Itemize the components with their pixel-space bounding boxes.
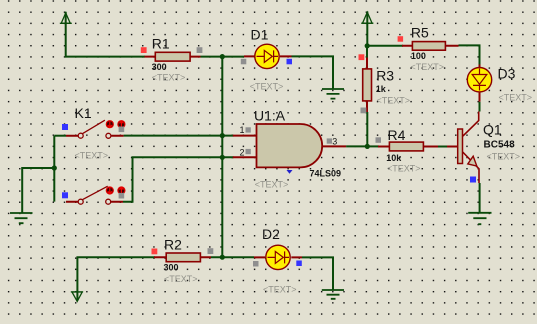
svg-text:U1:A: U1:A: [254, 108, 286, 124]
R2 pin marker: [208, 248, 214, 254]
svg-text:K1: K1: [75, 105, 92, 121]
R5 origin marker: [398, 36, 404, 42]
resistor R4: [378, 142, 438, 151]
U1:A text origin marker: [287, 170, 293, 174]
switch 1 origin marker: [62, 124, 68, 130]
switch 1 toggle buttons: [106, 120, 126, 128]
wire node A to LED D1: [222, 56, 244, 58]
junction pin 2: [220, 155, 225, 160]
wire power arrow to node B: [366, 11, 368, 45]
wire gate output to junction: [346, 145, 367, 147]
wire R4 output node: [367, 145, 379, 147]
wire switch 2 to gate pin 2: [123, 157, 234, 201]
svg-text:D1: D1: [251, 27, 269, 43]
ground near D2: [322, 290, 344, 299]
resistor R3: [363, 58, 372, 113]
svg-text:D2: D2: [262, 226, 280, 242]
transistor Q1: [447, 112, 479, 184]
wire switch 1 to gate pin 1: [124, 135, 234, 137]
right ground: [468, 213, 491, 224]
svg-text:74LS09: 74LS09: [310, 169, 342, 179]
svg-text:<TEXT>: <TEXT>: [377, 95, 411, 105]
wire down arrow to R2: [77, 257, 155, 300]
svg-text:<TEXT>: <TEXT>: [164, 274, 198, 284]
junction R2: [220, 255, 225, 260]
D2 origin marker: [296, 261, 302, 267]
svg-text:BC548: BC548: [484, 140, 516, 151]
switch 2 origin marker: [62, 192, 68, 198]
wire R1 to node A: [201, 56, 223, 58]
R1 pin marker: [197, 47, 203, 53]
svg-text:D3: D3: [498, 66, 516, 82]
node B junction: [365, 43, 370, 48]
wire Q1 emitter to ground: [479, 183, 481, 212]
wire R2 to junction and LED D2: [211, 256, 254, 258]
wire R3 top to node B: [366, 46, 368, 58]
AND gate U1:A: [233, 124, 346, 167]
svg-text:R3: R3: [376, 67, 394, 83]
switch K1 pole 2: [66, 186, 123, 204]
Q1 emitter marker: [470, 177, 476, 183]
down arrow bottom-left: [71, 292, 83, 302]
svg-text:<TEXT>: <TEXT>: [487, 152, 521, 162]
svg-text:<TEXT>: <TEXT>: [499, 92, 533, 102]
ground near D1: [322, 89, 344, 99]
junction output node: [365, 144, 370, 149]
svg-text:300: 300: [164, 263, 179, 273]
svg-text:<TEXT>: <TEXT>: [263, 285, 297, 295]
svg-text:R1: R1: [152, 36, 170, 52]
svg-text:<TEXT>: <TEXT>: [255, 179, 289, 189]
svg-text:R2: R2: [164, 237, 182, 253]
pin 3 marker: [327, 138, 332, 143]
wire R4 to Q1 base: [438, 146, 447, 148]
switch K1 pole 1: [66, 120, 124, 138]
switch 1 pin marker: [119, 127, 125, 133]
pin 1 marker: [246, 127, 251, 132]
R1 origin marker: [141, 47, 147, 53]
wire R5 to D3: [459, 45, 480, 64]
wire D1 to ground: [292, 56, 334, 88]
svg-text:2: 2: [240, 148, 245, 158]
resistor R2: [154, 253, 211, 262]
svg-text:R5: R5: [411, 24, 429, 40]
wire left bus to switch 1: [54, 135, 66, 137]
wire node B to R5: [367, 45, 403, 47]
svg-text:<TEXT>: <TEXT>: [387, 163, 421, 173]
svg-text:3: 3: [332, 137, 337, 147]
wire junction up to R3: [366, 112, 368, 146]
D2 pin marker: [253, 261, 259, 267]
wire D3 to Q1 collector: [479, 102, 481, 112]
svg-text:1k: 1k: [376, 84, 387, 94]
svg-text:10k: 10k: [386, 153, 402, 163]
D1 pin marker: [241, 59, 247, 65]
left vertical bus wire: [53, 136, 55, 202]
wire D2 to ground: [302, 257, 333, 289]
svg-text:Q1: Q1: [483, 122, 502, 138]
svg-text:1: 1: [240, 125, 245, 135]
svg-text:<TEXT>: <TEXT>: [250, 82, 284, 92]
LED D3: [467, 65, 491, 102]
R3 pin marker: [361, 108, 367, 114]
svg-text:<TEXT>: <TEXT>: [411, 62, 445, 72]
junction left bus: [52, 165, 57, 170]
pin 2 marker: [246, 149, 251, 154]
svg-text:<TEXT>: <TEXT>: [75, 151, 109, 161]
power arrow top-left: [60, 13, 72, 23]
svg-text:300: 300: [152, 62, 167, 72]
resistor R5: [402, 42, 459, 51]
node A junction: [220, 54, 225, 59]
svg-text:R4: R4: [388, 127, 406, 143]
R2 origin marker: [152, 249, 158, 255]
resistor R1: [145, 52, 201, 61]
D1 origin marker: [287, 59, 293, 65]
R3 origin marker: [359, 54, 365, 60]
switch 2 pin marker: [119, 193, 125, 199]
LED D1: [244, 44, 292, 68]
junction pin 1: [220, 133, 225, 138]
wire from power arrow to R1: [66, 12, 145, 57]
power arrow top-middle: [361, 12, 373, 23]
switch 2 toggle buttons: [106, 186, 126, 194]
R4 pin marker: [376, 137, 382, 143]
LED D2: [254, 245, 302, 269]
svg-text:<TEXT>: <TEXT>: [152, 72, 186, 82]
left ground: [10, 213, 33, 223]
wire junction to left ground: [22, 168, 54, 213]
svg-text:100: 100: [411, 51, 426, 61]
vertical bus wire: [221, 57, 223, 258]
